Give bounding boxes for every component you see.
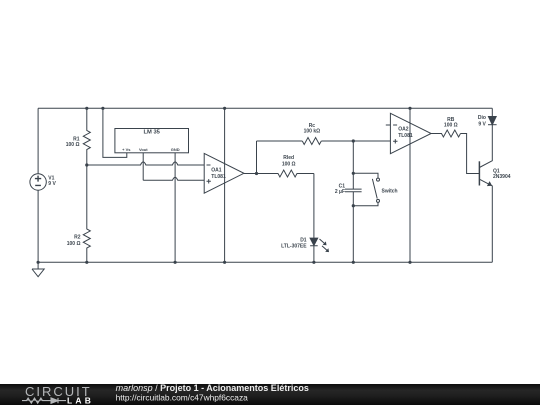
node V1 bottom rail [37, 261, 40, 264]
switch SW1 [377, 178, 380, 181]
wire top rail [38, 107, 492, 109]
transistor Q1 [478, 161, 480, 185]
IC LM35 [115, 129, 189, 153]
wire OA2 power rail through [409, 108, 411, 262]
op-amp OA2 [390, 113, 431, 153]
node R2 bottom rail [85, 261, 88, 264]
svg-text:9 V: 9 V [478, 121, 486, 127]
svg-text:Rled: Rled [283, 155, 294, 161]
ground [32, 262, 44, 276]
resistor RB [431, 130, 460, 137]
op-amp OA1 [204, 153, 244, 193]
svg-text:2N3904: 2N3904 [493, 174, 511, 180]
wire C1 to bottom rail [352, 192, 354, 262]
svg-text:http://circuitlab.com/c47whpf6: http://circuitlab.com/c47whpf6ccaza [116, 392, 249, 402]
svg-text:Vout: Vout [139, 147, 148, 152]
svg-text:TL081: TL081 [211, 174, 226, 180]
node OA2 power bottom rail [408, 261, 411, 264]
logo CIRCUIT [22, 384, 94, 405]
node OA1 power top rail [223, 107, 226, 110]
svg-text:LM 35: LM 35 [143, 129, 160, 135]
svg-text:Switch: Switch [382, 188, 398, 194]
svg-text:+ Vs: + Vs [122, 147, 131, 152]
node C1 bottom rail [352, 261, 355, 264]
svg-text:9 V: 9 V [48, 181, 56, 187]
wire node to C1 [352, 141, 354, 189]
svg-text:OA2: OA2 [398, 127, 409, 133]
wire OA1 power rail through [224, 108, 226, 262]
wire LM35 Vout down [142, 153, 144, 181]
wire OA1 output [244, 173, 257, 175]
wire output up to Rc row [256, 141, 258, 174]
wire A node to OA1 inverting input [87, 162, 204, 165]
resistor R2 [83, 165, 90, 262]
wire bottom rail [38, 261, 492, 263]
wire LM35 +Vs to top rail [103, 108, 127, 157]
LED D1 [310, 238, 318, 245]
node switch bottom branch [352, 204, 355, 207]
wire Rc row left segment [257, 140, 303, 142]
logo squiggle [22, 398, 66, 403]
svg-text:LTL-307EE: LTL-307EE [281, 244, 307, 250]
svg-text:100 Ω: 100 Ω [66, 142, 80, 148]
wire Rled corner down to D1 [313, 174, 315, 239]
svg-text:R2: R2 [74, 235, 81, 241]
svg-text:100 Ω: 100 Ω [67, 241, 81, 247]
resistor Rc [302, 138, 321, 145]
svg-text:Dio: Dio [478, 115, 486, 121]
node R1 top rail [85, 107, 88, 110]
wire OA2 inverting input stub [386, 124, 391, 126]
node OA1 power bottom rail [223, 261, 226, 264]
wire LM35 GND down [174, 153, 176, 262]
svg-text:100 Ω: 100 Ω [282, 162, 296, 168]
node Rc OA2 input [352, 139, 355, 142]
LED D1 light arrows [320, 239, 328, 251]
diode Dio [491, 108, 493, 116]
wire B Vout to OA1 non-inverting input [143, 177, 204, 180]
node GND line bottom rail [174, 261, 177, 264]
node R1 R2 wire A [85, 163, 88, 166]
node D1 bottom rail [312, 261, 315, 264]
svg-text:100 Ω: 100 Ω [444, 122, 458, 128]
resistor Rled [257, 170, 314, 177]
node OA2 power top rail [408, 107, 411, 110]
svg-text:2 µF: 2 µF [335, 189, 345, 195]
wire RB to Q1 base [461, 134, 480, 174]
svg-text:OA1: OA1 [211, 168, 222, 174]
wire Rc to OA2 non-inverting input [321, 140, 390, 142]
svg-text:100 kΩ: 100 kΩ [304, 128, 321, 134]
svg-text:LAB: LAB [67, 396, 94, 405]
capacitor C1 [345, 189, 362, 192]
node +Vs top rail [101, 107, 104, 110]
svg-text:TL081: TL081 [398, 133, 413, 139]
wire to switch top [353, 173, 378, 178]
node switch top branch [352, 172, 355, 175]
node OA1 output [255, 172, 258, 175]
svg-text:D1: D1 [300, 237, 307, 243]
resistor R1 [83, 108, 90, 165]
voltage source V1 [30, 108, 46, 262]
svg-text:GND: GND [171, 147, 180, 152]
wire switch bottom [353, 203, 378, 206]
